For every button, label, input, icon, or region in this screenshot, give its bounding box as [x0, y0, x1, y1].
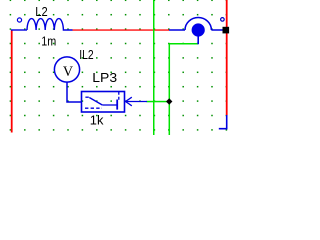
wire: green vertical net (long, x=153.7): [153, 0, 155, 135]
node: filled blue circle: [192, 23, 205, 36]
svg-text:LP3: LP3: [92, 70, 117, 85]
wire: blue L bottom right: [219, 115, 227, 129]
wire: blue stub voltmeter to box: [67, 82, 82, 102]
wire: red top rail horizontal: [73, 29, 170, 30]
pin circle near L2: [17, 18, 21, 22]
wire: blue stub below node: [197, 36, 199, 44]
switch symbol inside LP3: [85, 92, 119, 110]
switch LP3 box: [82, 92, 125, 113]
wire: green control line horizontal y=101.5: [147, 101, 171, 103]
svg-text:IL2: IL2: [79, 47, 93, 62]
wire: blue hop arc over node: [185, 17, 211, 30]
pin circle near right terminal: [221, 18, 225, 22]
wire: blue segment red-to-hop: [169, 29, 185, 31]
svg-text:1m: 1m: [41, 33, 56, 48]
wire: red vertical left rail: [11, 30, 13, 132]
wire: green L from node stub down (x=169.3): [169, 44, 198, 135]
svg-text:V: V: [63, 64, 73, 80]
wire: red vertical right rail: [226, 0, 228, 115]
svg-text:1k: 1k: [90, 113, 104, 128]
junction dot (diamond) on green net: [166, 98, 172, 104]
svg-text:L2: L2: [35, 4, 47, 19]
inductor L2: [11, 19, 73, 30]
wire: blue segment hop-to-terminal: [211, 29, 224, 31]
meter U: voltmeter circle: [54, 57, 79, 82]
terminal: black square: [223, 27, 230, 34]
arrow into LP3 (blue) with shaft: [126, 97, 148, 106]
